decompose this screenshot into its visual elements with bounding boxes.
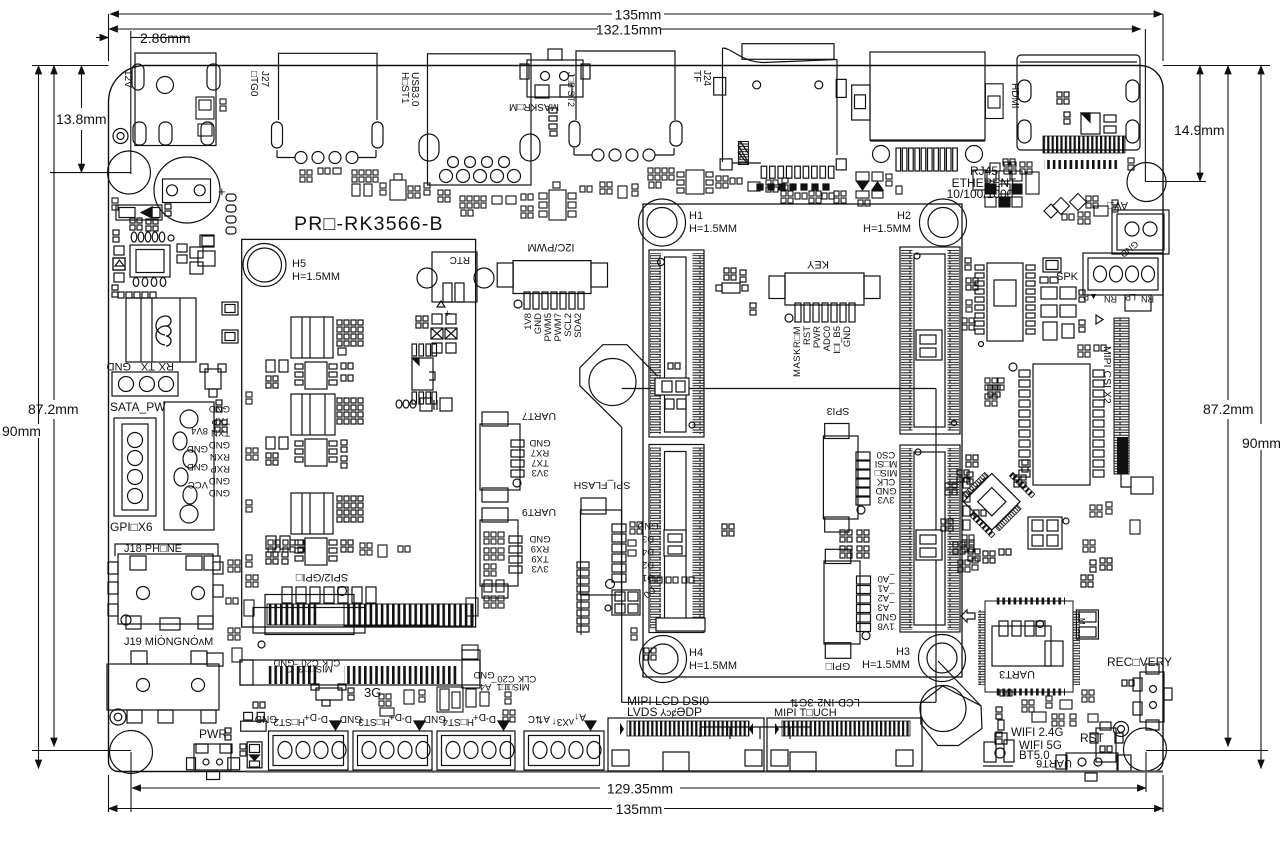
button RECOVERY (1122, 664, 1172, 730)
svg-text:RX: RX (158, 360, 174, 372)
svg-text:A⇅C: A⇅C (528, 713, 550, 724)
connector TF card J24 (714, 44, 847, 190)
connector UART9 (480, 508, 522, 598)
svg-text:_A0: _A0 (878, 573, 896, 584)
pads cluster near H1 (716, 268, 756, 315)
B2B connector right-bottom (900, 445, 960, 632)
switch right of PWR (240, 702, 266, 768)
connector DC jack 12V (132, 53, 220, 146)
qfn diamond U-codec (941, 458, 1035, 563)
svg-text:D4: D4 (642, 546, 654, 557)
connector USB3.0 HOST1 (419, 54, 540, 185)
component box above CSI (1125, 295, 1151, 311)
pin row above FPC (282, 587, 376, 604)
connector USB OTG J27 (272, 53, 384, 163)
mounting hole H5 (243, 244, 286, 287)
dim 135mm top (110, 7, 1163, 23)
connector MIPI CSI X2 (1114, 318, 1153, 494)
svg-text:VCC: VCC (188, 479, 208, 490)
svg-text:3V3: 3V3 (532, 563, 549, 574)
svg-text:J18 PH□NE: J18 PH□NE (124, 543, 182, 555)
connector USB HOST4 (437, 731, 515, 770)
connector debug 3-pin (112, 372, 178, 396)
cluster right of SIM area (228, 555, 258, 662)
capacitor pair right of inductor (222, 302, 238, 343)
sop8 U-dc1 (266, 360, 353, 389)
crystal Y1 (1076, 610, 1098, 639)
labels GND IO1_A4 C50 (473, 669, 536, 692)
connector USB HOST2 (269, 731, 349, 770)
label HOST4 (424, 711, 496, 727)
svg-text:RXP: RXP (210, 463, 230, 474)
svg-text:TXP: TXP (212, 415, 230, 426)
button PWR (187, 744, 240, 780)
B2B connector right-top (900, 247, 960, 434)
mounting hole top-right (1127, 163, 1166, 202)
capacitor C-big electrolytic (154, 157, 226, 223)
capacitor column right of switch (549, 108, 557, 136)
svg-text:+: + (218, 184, 226, 199)
svg-text:14.9mm: 14.9mm (1174, 122, 1225, 138)
label HOST2 (255, 711, 328, 727)
svg-text:H□ST2: H□ST2 (273, 716, 305, 727)
svg-text:RTC: RTC (450, 254, 470, 265)
svg-text:D-: D- (317, 713, 328, 724)
svg-text:TF: TF (691, 70, 702, 82)
svg-text:H□ST4: H□ST4 (442, 716, 474, 727)
capacitors right pair (198, 194, 236, 266)
svg-text:H2: H2 (897, 210, 911, 222)
svg-text:129.35mm: 129.35mm (607, 781, 673, 797)
svg-text:12V: 12V (122, 70, 133, 88)
pads cluster right of right B2B (965, 258, 978, 484)
svg-text:87.2mm: 87.2mm (28, 401, 79, 417)
connector RJ45 ethernet (870, 52, 985, 171)
connector SIM J18 (108, 544, 223, 630)
svg-text:J□B ST2: J□B ST2 (566, 72, 576, 107)
connector FPC modem (240, 650, 480, 688)
label ADC UX3 (528, 711, 586, 727)
svg-text:H=1.5MM: H=1.5MM (292, 271, 340, 283)
modem 3G cluster (379, 687, 515, 722)
svg-text:GND: GND (187, 461, 208, 472)
labels under SPK (1083, 292, 1154, 304)
connector audio bottom (1056, 753, 1131, 781)
labels I2C/PWM pins (523, 313, 584, 342)
connector aux right of TF (852, 85, 870, 120)
svg-text:GND: GND (209, 439, 230, 450)
svg-text:PWR: PWR (199, 727, 227, 741)
svg-text:_A2: _A2 (878, 592, 896, 603)
svg-text:KEY: KEY (806, 258, 829, 270)
capacitor C-big left (108, 151, 151, 194)
cluster below USB2 (648, 168, 713, 194)
connector USB HOST3 (353, 731, 432, 770)
mounting hole H1 (639, 199, 686, 246)
button RST (1090, 722, 1123, 762)
svg-text:LP: LP (1125, 292, 1136, 302)
caps cluster right of sop (1040, 258, 1085, 340)
svg-text:H=1.5MM: H=1.5MM (689, 660, 737, 672)
labels SPI3 pins (874, 449, 897, 505)
connector SIM J19 (107, 651, 223, 723)
svg-text:90mm: 90mm (2, 423, 41, 439)
wifi module shield (978, 598, 1080, 696)
svg-text:H=1.5MM: H=1.5MM (689, 223, 737, 235)
svg-text:TX9: TX9 (531, 553, 548, 564)
washer ring left-bottom (110, 709, 126, 725)
svg-text:GND: GND (209, 403, 230, 414)
pads inside module left edge (246, 392, 258, 512)
svg-text:D-: D- (485, 713, 496, 724)
connector FPC TOUCH (663, 718, 922, 771)
svg-text:H4: H4 (689, 647, 703, 659)
svg-text:CLK: CLK (321, 657, 340, 668)
module outline center (643, 204, 962, 677)
B2B connector left-top (649, 250, 704, 437)
svg-text:87.2mm: 87.2mm (1203, 401, 1254, 417)
pads wifi area (1000, 690, 1098, 726)
svg-text:H5: H5 (292, 258, 306, 270)
svg-text:ʌX3↑: ʌX3↑ (552, 716, 574, 727)
svg-text:WIFI 2.4G: WIFI 2.4G (1011, 727, 1063, 739)
svg-text:GND: GND (875, 611, 896, 622)
svg-text:SPK: SPK (1056, 271, 1079, 283)
transformer grid below RJ45 (973, 159, 1039, 207)
connector GPIOX6 header (114, 418, 156, 516)
svg-text:I2C/PWM: I2C/PWM (527, 241, 574, 253)
ic 4pad U-pa (1028, 517, 1069, 549)
label HOST3 (340, 711, 412, 727)
svg-text:SPI_FLASH: SPI_FLASH (574, 479, 631, 491)
pads row above inductor (118, 292, 156, 298)
dim 87.2mm left (28, 66, 131, 751)
ic U-audio sop (975, 263, 1035, 347)
transistor Q-left (200, 364, 227, 432)
connector SPK (1083, 253, 1163, 295)
pads above SPI2 label (268, 540, 410, 557)
connector FPC LVDS/EDP (608, 718, 764, 771)
dim 90mm left (2, 66, 109, 769)
pads below SIM2 (226, 560, 254, 616)
svg-text:UART9: UART9 (522, 506, 556, 518)
svg-text:TXN: TXN (211, 427, 230, 438)
pads right column extra (958, 300, 1140, 572)
pads column SPI1 area (462, 532, 504, 659)
svg-text:1V8: 1V8 (878, 621, 895, 632)
diamond component K1 (1044, 194, 1118, 224)
svg-text:_A3: _A3 (878, 602, 896, 613)
svg-text:135mm: 135mm (615, 7, 662, 23)
svg-text:MIPI T□UCH: MIPI T□UCH (774, 707, 837, 719)
connector UX3 (524, 731, 604, 770)
sop8 U-dc2 (266, 437, 347, 468)
switch MASKROM (520, 49, 590, 98)
connector GPIO fpc (824, 549, 871, 658)
pads row top strip extra (300, 168, 788, 204)
triangle mark (1096, 315, 1103, 324)
through-hole row (131, 232, 174, 242)
svg-text:J27: J27 (259, 71, 270, 88)
sop8 U-dc3 (266, 536, 353, 565)
sop8 U-mod vertical (396, 344, 452, 411)
svg-text:GND: GND (107, 360, 132, 372)
connector FPC SPI2/GPIO (253, 595, 473, 635)
label MIPI CSI X2 (1101, 346, 1113, 404)
svg-text:13.8mm: 13.8mm (56, 111, 107, 127)
svg-text:GND: GND (529, 533, 550, 544)
svg-text:D-: D- (401, 713, 412, 724)
arrow mark left of wifi (961, 610, 975, 622)
labels GPIO pins (875, 573, 896, 632)
svg-text:RXN: RXN (210, 451, 230, 462)
dim 2.86mm top-left (96, 30, 191, 174)
module outline left (242, 239, 476, 627)
svg-text:TX: TX (140, 360, 155, 372)
mounting hole H2 (920, 199, 967, 246)
svg-text:GPI□: GPI□ (825, 660, 850, 672)
flash U-spi (577, 498, 626, 635)
ic 4pad U-x (605, 590, 640, 615)
sot23 Q-3g (311, 684, 354, 706)
label RJ45 ETHERENT 10/100/1000 (947, 164, 1017, 201)
svg-text:H1: H1 (689, 210, 703, 222)
svg-text:_A1: _A1 (878, 583, 896, 594)
connector I2C/PWM (497, 261, 607, 309)
capacitors X-marked (416, 314, 457, 353)
svg-text:REC□VERY: REC□VERY (1107, 655, 1172, 669)
svg-text:2.86mm: 2.86mm (140, 30, 191, 46)
svg-text:D3: D3 (642, 533, 654, 544)
mounting hole bottom-right (1124, 728, 1167, 771)
regulator block 3 (291, 493, 363, 534)
antenna feed component (983, 733, 1014, 766)
labels WIFI (1011, 727, 1063, 762)
diode pair below TF (856, 172, 902, 206)
connector USB2.0 (569, 51, 682, 161)
mounting hole H3 (919, 635, 966, 682)
svg-text:90mm: 90mm (1242, 435, 1280, 451)
pads rows below TF (781, 191, 846, 203)
cluster below HOST1 (460, 182, 576, 220)
pads cluster (113, 218, 158, 242)
pads right B2B bottom side (962, 478, 974, 547)
svg-text:SPI2/GPI□: SPI2/GPI□ (295, 571, 348, 583)
connector SPI3 (823, 424, 870, 533)
svg-text:GND: GND (209, 475, 230, 486)
B2B connector left-bottom (649, 445, 705, 633)
svg-text:GPI□X6: GPI□X6 (110, 520, 153, 534)
svg-text:H3: H3 (896, 646, 910, 658)
svg-text:UART3: UART3 (999, 668, 1035, 680)
svg-text:D+: D+ (473, 711, 486, 722)
svg-text:UART7: UART7 (522, 410, 556, 422)
svg-text:GND: GND (209, 487, 230, 498)
labels MIPI LCD DSI0 / LVDS LCD EDP (627, 694, 709, 719)
connector SATA power (164, 402, 214, 530)
svg-text:CLK: CLK (517, 673, 536, 684)
pads cluster module center (722, 524, 869, 558)
dim 14.9mm right (1145, 29, 1224, 182)
svg-text:GND: GND (529, 437, 550, 448)
svg-text:MASKR□M: MASKR□M (509, 101, 559, 112)
svg-text:PR□-RK3566-B: PR□-RK3566-B (294, 213, 444, 235)
connector AV jack (1112, 210, 1169, 260)
svg-text:3V3: 3V3 (532, 467, 549, 478)
antenna keepout octagon right (920, 661, 982, 746)
svg-text:RX7: RX7 (531, 447, 549, 458)
pads left board edge (112, 198, 118, 210)
svg-text:MIPI CSI X2: MIPI CSI X2 (1101, 346, 1113, 404)
resistor bank (177, 236, 214, 274)
labels KEY pins (792, 326, 853, 377)
svg-text:D+: D+ (304, 711, 317, 722)
battery holder RTC (417, 252, 494, 320)
svg-text:3V3: 3V3 (878, 494, 895, 505)
module inner region lines (622, 389, 936, 703)
svg-text:H=1.5MM: H=1.5MM (863, 223, 911, 235)
labels UART9 pins (529, 533, 550, 574)
svg-text:H□ST3: H□ST3 (358, 716, 390, 727)
dim 87.2mm right (1146, 66, 1268, 751)
board bottom inner edge (246, 770, 1163, 772)
connector HDMI (1017, 55, 1140, 153)
misc pads left of recovery (962, 510, 1112, 587)
labels flash pins (637, 520, 658, 600)
dim 13.8mm left (50, 66, 131, 173)
svg-text:□TG0: □TG0 (248, 71, 259, 97)
dim 129.35mm bottom (131, 752, 1146, 812)
dim 90mm right (1163, 66, 1280, 769)
connector eMMC socket (988, 363, 1104, 485)
labels SATA signals (rotated) (187, 403, 230, 498)
pads cluster below wifi (996, 707, 1004, 744)
connector aux right of RJ45 (985, 84, 1003, 119)
labels UART7 pins (529, 437, 550, 478)
svg-text:H=1.5MM: H=1.5MM (862, 659, 910, 671)
svg-text:RN: RN (1104, 294, 1117, 304)
svg-text:GND: GND (842, 326, 853, 347)
antenna keepout octagon left (580, 345, 658, 428)
label GND TX RX (107, 360, 175, 372)
svg-text:GND: GND (187, 443, 208, 454)
diode D1 (116, 204, 171, 220)
svg-text:SDA2: SDA2 (573, 313, 584, 338)
svg-text:RX9: RX9 (531, 543, 549, 554)
svg-text:D2: D2 (642, 559, 654, 570)
svg-text:M: M (1077, 618, 1086, 625)
connector KEY (769, 273, 880, 322)
regulator block 2 (291, 394, 363, 435)
pads row below HDMI (990, 158, 1134, 174)
connector UART7 (480, 412, 524, 502)
cluster under barrel (196, 97, 226, 136)
pads over B2B left-bottom (628, 522, 694, 660)
mounting hole bottom-left (110, 731, 153, 774)
antenna hole left (589, 359, 636, 406)
label MIPI TOUCH (774, 696, 860, 719)
IC U-pmic (112, 245, 170, 297)
svg-text:135mm: 135mm (616, 801, 663, 817)
washer ring top-left (113, 129, 128, 144)
mounting hole H4 (640, 636, 687, 683)
svg-text:H□ST1: H□ST1 (399, 72, 410, 104)
board outline (109, 66, 1164, 772)
svg-text:LVDS ⅄ↄȼƏDP: LVDS ⅄ↄȼƏDP (627, 705, 702, 719)
svg-text:SATA_PW: SATA_PW (110, 400, 166, 414)
label H5 H=1.5MM (292, 258, 340, 283)
svg-text:GND: GND (473, 669, 494, 680)
dim 135mm bottom (109, 14, 1164, 817)
svg-text:132.15mm: 132.15mm (596, 22, 662, 38)
svg-text:SPI3: SPI3 (826, 405, 849, 417)
regulator block 1 (291, 317, 363, 358)
svg-text:TX7: TX7 (531, 457, 548, 468)
svg-text:J19 MİȮNGNȮʌM: J19 MİȮNGNȮʌM (124, 635, 213, 648)
dim 132.15mm top (109, 22, 1141, 38)
svg-text:8V4: 8V4 (191, 425, 208, 436)
svg-text:A↑: A↑ (574, 711, 586, 722)
inductor L-power block (126, 298, 196, 362)
resistor cluster below OTG (318, 168, 420, 200)
washer ring right (1114, 722, 1129, 737)
labels GND IO3_C C20 MISOI CLK (273, 657, 340, 674)
